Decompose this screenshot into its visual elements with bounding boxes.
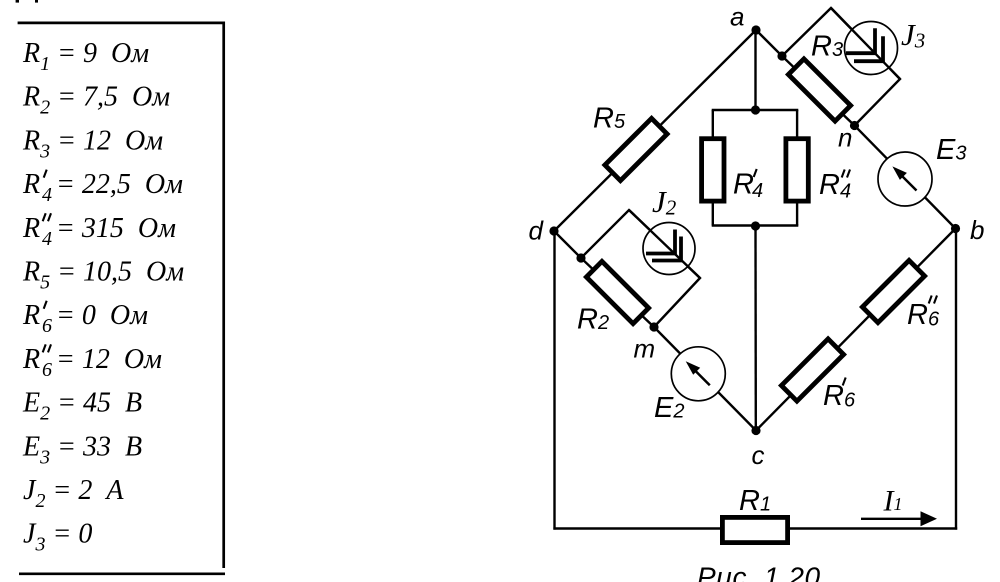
EMF source E2 arrow [686, 361, 710, 385]
EMF source E3 circle [878, 152, 932, 206]
wire bottom rail of R4 parallel group [712, 224, 799, 226]
svg-text:= 315 Ом: = 315 Ом [56, 213, 176, 244]
label R4' [733, 169, 763, 203]
table top border line [18, 22, 223, 25]
svg-text:R3 = 12 Ом: R3 = 12 Ом [22, 125, 163, 162]
svg-text:R: R [22, 300, 40, 331]
junction dot a-J3 corner [777, 51, 786, 60]
current source J3 arrow chevron outer [854, 36, 883, 61]
resistor R3 [788, 59, 850, 121]
wire J2 rhombus loop (edges d-corner/top/right/m, R2 on lower-left edge) [581, 210, 700, 327]
wire n to b through E3 [855, 126, 956, 229]
value label R6'' = 12 Om [22, 344, 162, 381]
resistor R5 [605, 118, 667, 180]
svg-text:R3: R3 [811, 31, 843, 63]
svg-text:d: d [529, 216, 545, 246]
svg-text:= 12 Ом: = 12 Ом [56, 344, 162, 375]
wire a down to parallel-group top rail [754, 30, 756, 110]
wire R4' bottom stub [712, 200, 714, 226]
resistor R6'' [862, 260, 924, 322]
svg-text:R: R [907, 299, 928, 331]
node d junction dot [549, 226, 558, 235]
wire J3 rhombus loop (edges a-corner/top/right/n, R3 on lower-left edge) [782, 8, 900, 126]
svg-text:J2: J2 [652, 184, 677, 220]
wire R4'' bottom stub [796, 200, 798, 226]
wire m to c through E2 [654, 327, 756, 431]
svg-text:R1 = 9 Ом: R1 = 9 Ом [22, 38, 149, 75]
current source J2 arrow chevron inner [646, 230, 675, 254]
node c junction dot [751, 426, 760, 435]
current source J2 shaft [629, 210, 700, 278]
table right border line [222, 22, 225, 569]
svg-text:R2: R2 [577, 304, 609, 336]
wire d down left side [553, 231, 555, 530]
svg-text:J3: J3 [901, 17, 925, 53]
svg-text:c: c [752, 440, 765, 470]
svg-text:R: R [819, 169, 840, 201]
svg-text:R2 = 7,5 Ом: R2 = 7,5 Ом [22, 82, 170, 119]
svg-text:R5: R5 [593, 103, 626, 135]
value label R4' = 22,5 Om [22, 169, 183, 206]
svg-text:m: m [634, 334, 656, 364]
resistor R6' [781, 339, 843, 401]
svg-text:= 22,5 Ом: = 22,5 Ом [56, 169, 183, 200]
svg-text:R5 = 10,5 Ом: R5 = 10,5 Ом [22, 257, 184, 294]
label R4'' [819, 169, 851, 203]
svg-text:R1: R1 [739, 485, 771, 517]
node n junction dot [850, 121, 859, 130]
svg-text:6: 6 [928, 309, 940, 331]
value label R4'' = 315 Om [22, 213, 176, 250]
junction dot top rail [751, 105, 760, 114]
svg-text:4: 4 [42, 228, 52, 250]
svg-text:6: 6 [42, 315, 52, 337]
svg-text:R: R [22, 344, 40, 375]
svg-text:E3 = 33 В: E3 = 33 В [22, 431, 142, 468]
svg-text:4: 4 [840, 181, 851, 203]
current arrow I1 [861, 511, 937, 526]
resistor R4'' [786, 139, 808, 201]
svg-text:Рис. 1.20: Рис. 1.20 [697, 562, 821, 582]
EMF source E2 circle [671, 347, 725, 401]
svg-text:E2: E2 [654, 392, 684, 424]
node b junction dot [951, 224, 960, 233]
svg-text:b: b [970, 215, 984, 245]
current source J2 circle [643, 223, 695, 275]
svg-text:J2 = 2 А: J2 = 2 А [23, 475, 124, 512]
svg-text:4: 4 [42, 184, 52, 206]
svg-text:J3 = 0: J3 = 0 [23, 519, 92, 556]
svg-text:E2 = 45 В: E2 = 45 В [22, 388, 142, 425]
wire bottom (under R1) [553, 527, 957, 529]
current source J3 circle [845, 22, 898, 75]
svg-text:4: 4 [752, 180, 763, 202]
wire R4'' top stub [796, 110, 798, 140]
svg-text:I1: I1 [883, 485, 903, 518]
value label R6' = 0 Om [22, 300, 148, 337]
node m junction dot [649, 322, 658, 331]
current source J3 shaft [831, 8, 900, 79]
svg-text:R: R [22, 213, 40, 244]
svg-text:= 0 Ом: = 0 Ом [56, 300, 148, 331]
label R6'' [907, 296, 940, 332]
svg-text:R: R [733, 169, 754, 201]
svg-text:n: n [838, 123, 852, 153]
wire d to J2 rhombus left corner [554, 231, 581, 258]
resistor R4' [702, 139, 724, 201]
wire parallel group down to node c [754, 226, 757, 431]
svg-text:6: 6 [844, 390, 856, 412]
wire a-d (left upper diagonal) [554, 30, 756, 231]
resistor R1 [722, 517, 787, 542]
svg-text:6: 6 [42, 359, 52, 381]
svg-text:a: a [730, 2, 744, 32]
resistor R2 [586, 261, 648, 323]
table bottom border line [19, 572, 225, 575]
wire b down right side [955, 229, 957, 530]
wire a to J3 rhombus left corner [756, 30, 782, 56]
svg-text:E3: E3 [936, 134, 966, 166]
current source J2 arrow chevron outer [652, 237, 681, 261]
node a junction dot [751, 25, 760, 34]
EMF source E3 arrow [892, 166, 916, 190]
svg-text:R: R [22, 169, 40, 200]
junction dot bottom rail [751, 221, 760, 230]
wire c to b (under R6' R6'') [756, 229, 956, 431]
label R6' [823, 378, 856, 413]
junction dot d-J2 corner [576, 253, 585, 262]
wire top rail of R4 parallel group [712, 109, 799, 111]
current source J3 arrow chevron inner [846, 28, 875, 53]
svg-text:R: R [823, 380, 844, 412]
wire R4' top stub [712, 110, 714, 140]
table top cut glyph fragments [16, 0, 38, 3]
